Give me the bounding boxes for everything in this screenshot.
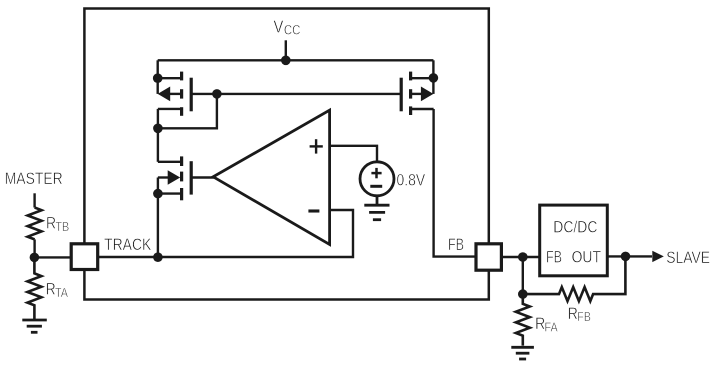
- op-amp minus input marker: [308, 209, 319, 212]
- label SLAVE: [666, 249, 710, 268]
- wire MASTER stub: [33, 193, 35, 207]
- label FB pin: [448, 235, 464, 254]
- svg-text:TA: TA: [55, 285, 69, 300]
- transistor M3 (PMOS mirror output): [401, 60, 433, 115]
- svg-text:V: V: [274, 17, 284, 37]
- wire FB node down: [522, 257, 524, 294]
- label RTA: [46, 280, 69, 300]
- op-amp plus input marker: [310, 139, 323, 153]
- wire Vcc top rail: [158, 59, 434, 61]
- label TRACK: [104, 236, 152, 255]
- wire DC/DC output: [607, 255, 652, 257]
- node Vcc junction dot: [281, 56, 291, 66]
- svg-text:OUT: OUT: [572, 248, 602, 267]
- svg-text:R: R: [568, 305, 578, 324]
- node output junction dot: [621, 252, 631, 262]
- node M3 source junction dot: [429, 73, 439, 83]
- node M2 source junction dot: [153, 189, 163, 199]
- svg-text:R: R: [535, 315, 545, 334]
- svg-text:CC: CC: [284, 21, 301, 37]
- svg-text:FA: FA: [545, 319, 559, 334]
- svg-text:TB: TB: [55, 219, 69, 234]
- svg-text:TRACK: TRACK: [104, 236, 152, 255]
- wire Vcc stub: [285, 40, 287, 60]
- ground below VREF: [364, 196, 389, 220]
- transistor M1 (diode-connected PMOS): [158, 72, 192, 129]
- Vcc label: [274, 17, 301, 37]
- wire FB pin to DC/DC: [501, 256, 539, 258]
- svg-text:FB: FB: [546, 248, 562, 267]
- resistor RFA: [516, 294, 530, 346]
- wire gate rail: [191, 93, 401, 95]
- wire M3 drain to FB pin: [434, 109, 476, 257]
- svg-text:R: R: [46, 214, 56, 233]
- svg-text:DC/DC: DC/DC: [553, 218, 597, 237]
- arrow to SLAVE: [652, 251, 664, 262]
- TRACK pin box: [71, 244, 98, 270]
- ground below RFA: [511, 347, 534, 359]
- DC/DC converter box: [540, 205, 608, 276]
- label MASTER: [5, 170, 63, 189]
- wire left source vertical: [156, 60, 158, 94]
- node gate rail junction dot: [212, 89, 222, 99]
- wire M2 gate to op-amp output: [191, 176, 214, 178]
- svg-text:MASTER: MASTER: [5, 170, 63, 189]
- resistor RTA: [27, 257, 41, 319]
- node M1 source junction dot: [153, 73, 163, 83]
- wire minus input feedback to TRACK: [98, 210, 353, 257]
- transistor M2 (NMOS): [158, 156, 191, 257]
- label RFA: [535, 315, 558, 335]
- wire M2 drain vertical: [157, 128, 159, 162]
- node MASTER divider dot: [30, 253, 40, 263]
- wire plus input to reference: [330, 146, 377, 163]
- node M1 drain junction dot: [153, 124, 163, 134]
- wire divider to TRACK pin: [34, 256, 71, 258]
- op-amp U1 (left-pointing comparator): [213, 110, 329, 244]
- FB pin box: [476, 244, 501, 270]
- node FB junction dot: [518, 252, 528, 262]
- svg-text:0.8V: 0.8V: [397, 171, 426, 190]
- label FB OUT: [546, 248, 601, 267]
- voltage source VREF 0.8V: [360, 162, 394, 196]
- IC outer boundary box: [84, 9, 488, 300]
- svg-text:R: R: [46, 280, 56, 299]
- label 0.8V: [397, 171, 426, 190]
- ground below RTA: [22, 320, 47, 332]
- wire RTB to node: [33, 239, 35, 257]
- svg-text:SLAVE: SLAVE: [666, 249, 710, 268]
- resistor RFB: [523, 257, 626, 301]
- wire M1 gate-drain loop: [158, 94, 217, 128]
- resistor RTB: [28, 208, 42, 240]
- node TRACK junction dot: [153, 252, 163, 262]
- node RFA/RFB junction dot: [518, 289, 528, 299]
- label DC/DC: [553, 218, 597, 237]
- svg-text:FB: FB: [577, 309, 591, 324]
- label RTB: [46, 214, 69, 234]
- svg-text:FB: FB: [448, 235, 464, 254]
- label RFB: [568, 305, 591, 325]
